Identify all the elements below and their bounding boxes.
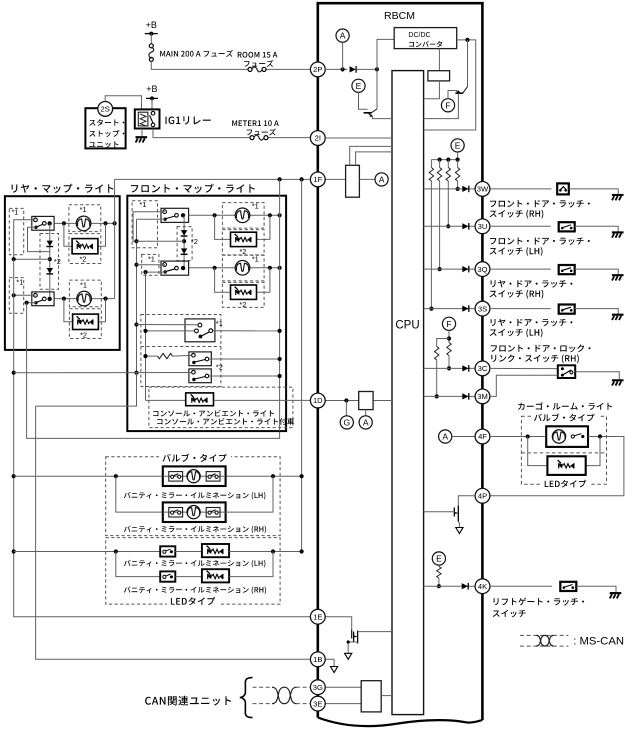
dashed *1 (front sw2) [142,254,159,275]
node swC out [278,374,282,378]
ground (3C) [612,379,624,381]
svg-text:3Q: 3Q [477,265,487,274]
wire front LED2 left [215,268,231,292]
switch console B [189,352,211,366]
diode 3C [462,365,468,371]
reference box [346,165,360,197]
label front map light [131,184,255,193]
wire front LED1 left [215,215,231,239]
node F2 swA [143,329,147,333]
svg-text:3C: 3C [478,364,488,373]
rail F1 [136,219,138,372]
wire diode to DC/DC corner [356,68,377,70]
connector 1B [310,652,325,667]
vanity RH switch 2 [206,508,220,518]
vanity LED RH switch [160,571,175,581]
circle A (cargo) [439,430,452,443]
out arrow (1E) [345,653,352,659]
resistor R5 [435,347,439,361]
wire 4K to switch [490,585,552,587]
twisted pair (CAN) [272,687,297,703]
resistor R4 [457,160,459,168]
wire 1F to ref box [325,178,345,180]
wire CPU to 3S [424,308,476,310]
vanity LH switch 2 [206,472,220,482]
wire cargo right rail to LED [586,437,600,466]
wire ref to CPU (1) [350,146,392,165]
wire DC/DC right [424,40,476,130]
connector 1E [310,609,325,624]
node 1F-vanity rail [300,177,304,181]
connector 3Q [475,262,490,277]
label vanity LED RH [124,586,266,594]
node F1 c [134,322,138,326]
dashed *1 (front lamp2) [222,255,264,281]
wire 1B stub [325,659,334,666]
cargo LED [558,460,561,463]
lamp front map 1 [235,208,250,223]
svg-text:1B: 1B [313,655,322,664]
label converter [409,41,442,47]
wire vanity row1 left [14,475,163,477]
node vled row1 a [114,549,118,553]
wire switch to ground (3S) [575,309,619,314]
wire 4P to Q2 [458,496,475,506]
wire 3U to switch [490,225,551,227]
svg-text:*1: *1 [16,278,23,287]
wire rear LED2 left [64,299,73,322]
wire front sw1 common [133,212,165,241]
wire 3C to switch [490,367,558,369]
node DC/DC right [465,38,469,42]
svg-text:2P: 2P [313,65,322,74]
node F2 top [143,270,147,274]
wire CPU to 3U [424,225,476,227]
svg-text:*1: *1 [80,281,87,290]
transistor T1 [376,69,378,109]
rail B (console return) [27,303,280,439]
lamp rear map 2 [77,291,92,306]
resistor R6 [447,343,451,356]
svg-text:4K: 4K [478,582,487,591]
node on 2P line [341,67,345,71]
RBCM module box [318,3,483,720]
svg-text:*2: *2 [239,300,246,309]
wire CPU to Q2 gate [424,511,455,513]
svg-text:*2: *2 [54,257,61,266]
cargo dashed box [521,416,606,484]
label rear door latch LH 2 [490,329,543,338]
switch front map 2 [161,261,189,275]
svg-text:+B: +B [146,20,157,30]
ground (3W) [612,194,624,196]
vanity LED RH box [202,569,229,582]
diode D5 [181,248,187,254]
cargo LED unit box [547,456,585,475]
dashed box console light [149,387,293,428]
wire vanity LED row1 left [14,551,161,553]
label CAN units [145,696,231,706]
wire 3M to switch [490,375,558,396]
circle G [340,416,353,429]
svg-text:1F: 1F [313,175,322,184]
svg-text:*1: *1 [216,319,223,328]
svg-text:3E: 3E [313,699,322,708]
wire vled row1 right [229,551,302,553]
connector 1D [310,393,325,408]
node bus 1 [438,158,442,162]
wire F1 to swA [137,324,198,326]
label METER1 10 A [232,120,279,126]
wire F2 to console LED [146,399,186,401]
node F split [447,336,451,340]
vanity RH switch 1 [169,508,183,518]
label LED type [167,596,219,605]
out arrow (4P) [456,528,463,534]
label vanity RH [124,526,266,534]
console LED [191,394,194,397]
node R1 row [429,307,433,311]
wire swB out [209,358,279,360]
diode 3U [462,223,468,229]
cargo bulb lamp [552,430,565,443]
svg-text:E: E [455,140,461,150]
wire Q3 source [348,642,357,653]
wire MAIN fuse to 2P [151,61,248,69]
svg-text:*1: *1 [252,202,259,211]
switch front door lock link RH [558,365,575,378]
wire 4F to cargo unit [490,436,546,438]
transistor F1 [467,40,469,87]
connector 2I [310,131,325,146]
svg-text:*2: *2 [80,255,87,264]
label front door latch RH 2 [490,210,544,219]
node R4 row [456,187,460,191]
svg-text:3W: 3W [477,185,489,194]
connector 3U [475,219,490,234]
diode D3 [47,268,53,274]
node R6 row [447,366,451,370]
diode 3S [462,306,468,312]
node front row1 c [278,213,282,217]
node R2 row [438,267,442,271]
wire coil to ground [141,129,143,137]
node rear row2 b [103,297,107,301]
wire vled RH drop [116,552,160,577]
rail rear-1F [114,179,116,298]
node railA sw2 [12,293,16,297]
rear map light box [5,196,120,350]
node 1F-front rail [278,177,282,181]
label rear door latch RH 2 [490,290,544,299]
svg-text:: MS-CAN: : MS-CAN [573,636,624,648]
svg-text:E: E [356,81,362,91]
label bulb type [159,453,231,462]
svg-text:*2: *2 [216,363,223,372]
node rear row1 a [62,221,66,225]
wire railA to chain [14,258,50,260]
fuse ROOM 15A [248,67,252,71]
dashed *2 (front diodes) [177,227,192,261]
connector 1F [310,172,325,187]
label cargo LED type [541,479,589,488]
wire 1D to CPU [325,400,392,402]
fuse MAIN 200A [149,44,153,48]
node rear row2 a [62,297,66,301]
svg-text:4F: 4F [478,432,487,441]
relay coil [138,112,148,126]
wire F down [448,330,450,342]
node rear chain mid [48,257,52,261]
label front door lock link 1 [491,345,591,353]
label ROOM 15 A [238,52,278,58]
svg-text:A: A [442,432,448,442]
switch console A [185,319,215,342]
legend MS-CAN lines [520,634,568,636]
vanity LED LH box [202,544,229,557]
relay contact [151,111,155,115]
label liftgate latch 2 [493,610,526,618]
switch rear map 2 [32,292,54,306]
wire rear diode chain [49,223,51,298]
node railA-chain [12,257,16,261]
dashed *2 (front LED2) [222,282,264,307]
svg-text:*1: *1 [80,205,87,214]
wire swC out [209,375,279,377]
wire ref to A [359,178,375,180]
resistor R1 [430,160,432,168]
wire rear sw1 common [14,220,36,259]
connector 2S [98,102,113,117]
wire 2I to CPU [325,137,392,139]
svg-text:A: A [340,31,346,41]
wire 1F left rail [115,178,311,180]
svg-text:+B: +B [146,84,157,94]
wire front sw2 lower [146,271,166,273]
label vanity LH [124,492,266,500]
wire cargo unit right [588,437,624,496]
label unit [89,141,118,148]
wire front row1 [189,214,280,216]
wire 2P to diode [325,68,347,70]
wire CPU to 4K [424,585,476,587]
rail F2 [145,272,147,400]
node cargo left rail [526,434,530,438]
label liftgate latch 1 [494,598,584,606]
fuse METER1 10A [250,136,254,140]
ground (3S) [612,314,624,316]
transistor Q3 (FET) [351,630,353,639]
connector 3E [310,696,325,711]
wire E to bus [457,152,459,160]
svg-text:F: F [446,319,451,329]
node railA console [12,371,16,375]
connector 3C [475,361,490,376]
LED front 1 [235,234,238,237]
wire switch to ground (3W) [569,189,618,194]
node railB top [25,301,29,305]
wire 3E to CAN block [325,703,361,705]
wire A to 4F [452,436,475,438]
ground (3U) [612,231,624,233]
wire 3W to switch [490,188,552,190]
circle E (4K) [432,552,445,565]
node 1D branch [344,398,348,402]
svg-text:3M: 3M [477,392,488,401]
wire CPU to 3Q [424,268,476,270]
connector 2P [310,62,325,77]
wire 3G bus (MS-CAN) [253,686,274,688]
wire coupler to CPU [424,81,440,99]
label start [89,119,124,126]
wire rear LED1 left [64,223,72,246]
wire relay to 2I [153,129,250,138]
transistor Q2 (FET) [453,508,455,517]
wire vled LH mid [175,551,202,553]
wire switch to ground (3C) [575,372,619,380]
wire railA to swC [14,372,192,374]
diode D2 [47,241,53,247]
diode 3Q [462,266,468,272]
dashed *1 (rear lamp1) [69,205,101,232]
wire ref to CPU (2) [356,152,392,165]
pullup bus [431,159,457,161]
node railA vanity [12,474,16,478]
circle E (T1 base) [352,79,365,92]
node F1 d [134,371,138,375]
diode 4K [462,583,468,589]
wire 3S to switch [490,308,551,310]
node D1 out [375,67,379,71]
vanity LED LH switch [160,546,175,556]
wire A to 2P line [342,42,344,69]
CPU box [392,71,424,715]
wire rear row1 [54,222,115,224]
connector 3G [310,680,325,695]
label cargo room light [518,402,612,410]
svg-text:*2: *2 [191,237,198,246]
wire rear LED1 right [98,223,106,246]
node swB out [278,357,282,361]
node F1 b [134,263,138,267]
unit 2S start-stop box [85,108,125,148]
dashed box console switches [141,315,221,387]
switch front door latch RH [557,183,569,194]
wire console LED to 1D [214,399,311,401]
rail A (to 1E) [14,259,311,617]
wire CPU to 3M [424,395,476,397]
svg-text:1D: 1D [313,396,323,405]
wire front row2 [189,267,280,269]
svg-text:*1: *1 [139,200,146,209]
wire vled RH return [229,552,273,577]
node front row1 a [213,213,217,217]
switch rear map 1 [32,216,54,230]
node vanity row1 a [114,474,118,478]
svg-text:1E: 1E [313,612,322,621]
wire 3Q to switch [490,268,551,270]
diode 3M [462,393,468,399]
ground (3Q) [612,274,624,276]
svg-text:3S: 3S [478,304,487,313]
lamp front map 2 [235,261,250,276]
vanity LED RH [207,571,210,574]
label stop [89,130,124,137]
connector 3W [475,182,490,197]
svg-text:A: A [379,174,385,184]
node F2 res [143,354,147,358]
switch console C [189,369,211,383]
label rear map light [12,184,114,193]
wire up to DC/DC [377,39,394,69]
LED front 2 box [231,285,257,299]
node R7 row [437,584,441,588]
vanity LH switch 1 [169,472,183,482]
svg-text:CPU: CPU [395,320,419,332]
svg-text:A: A [363,417,369,427]
node front row2 c [278,266,282,270]
svg-text:4P: 4P [478,492,487,501]
switch front map 1 [161,208,189,222]
svg-text:2I: 2I [315,134,321,143]
wire vanity row1 right [226,475,302,477]
wire vanity RH return [226,476,273,512]
LED front 1 box [231,232,257,246]
resistor R2 [439,160,441,168]
circle F (F1) [441,99,454,112]
svg-text:*1: *1 [252,255,259,264]
svg-text:E: E [436,554,442,564]
resistor R3 [447,160,449,168]
wire rear LED2 right [98,299,105,322]
wire switch to ground (4K) [576,586,616,592]
circle A (ref) [375,173,388,186]
resistor R8 (console) [158,354,173,359]
node bus 2 [446,158,450,162]
wire F branch left [437,339,449,347]
vanity RH lamp [187,505,200,518]
CAN transceiver box [361,681,381,712]
resistor R7 [438,565,440,566]
wire front sw1 lower [137,218,166,220]
node vanity row1 c [300,474,304,478]
switch rear door latch LH [559,305,575,314]
svg-text:RBCM: RBCM [384,10,415,22]
wire F1 to 1B rail [36,373,137,406]
svg-text:F: F [445,100,450,110]
wire rear row2 [54,298,115,300]
connector 4P [475,488,490,503]
node front chain mid [182,239,186,243]
connector 3S [475,301,490,316]
wire +B to MAIN fuse [150,34,152,44]
node F1 a [134,239,138,243]
node R5 row [435,394,439,398]
dashed *1 (front lamp1) [222,203,264,229]
coupler box [428,71,450,81]
wire node to G [345,401,347,416]
circle F (sense) [442,317,455,330]
wire 3E bus (MS-CAN) [253,703,274,705]
vanity LED LH [207,546,210,549]
label cargo bulb type [531,413,598,422]
ground (4K) [610,592,622,594]
node R3 row [446,224,450,228]
wire Q3 drain to CPU [358,631,392,633]
dashed box bulb type [106,457,280,536]
rail to 1B [36,406,311,659]
wire cargo left rail to LED [528,437,548,466]
